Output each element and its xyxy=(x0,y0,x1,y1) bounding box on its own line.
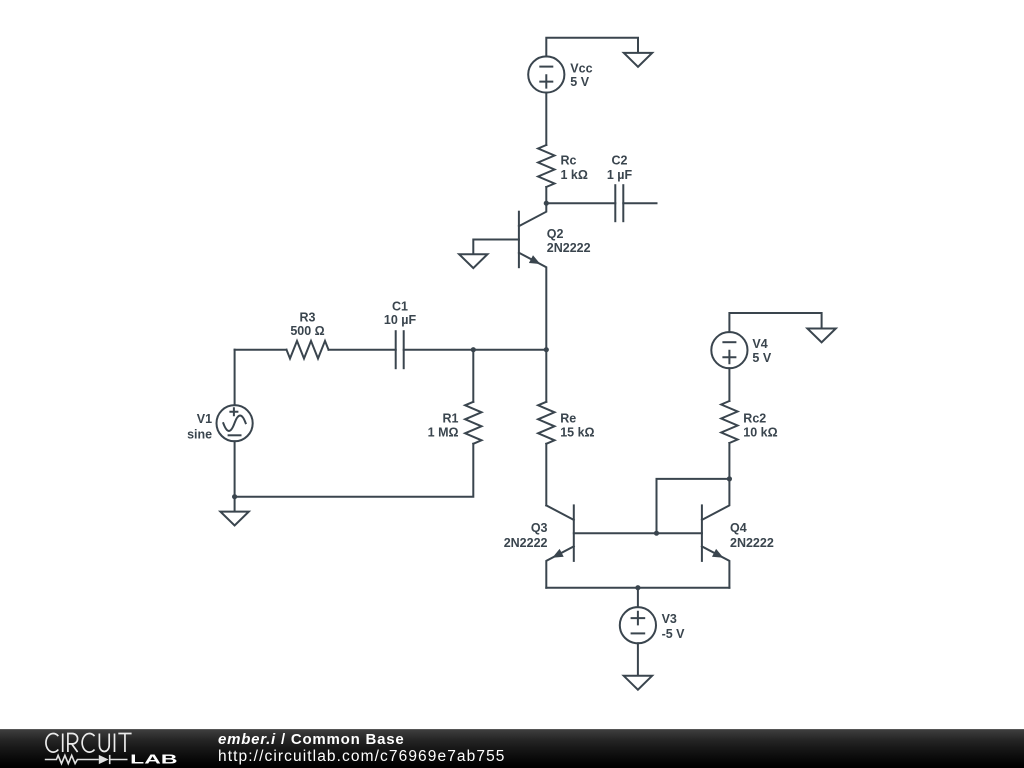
node V1 minus xyxy=(232,494,237,499)
svg-text:500 Ω: 500 Ω xyxy=(290,324,324,338)
voltage source V4 xyxy=(711,332,747,368)
footer url text xyxy=(218,748,506,766)
svg-text:R1: R1 xyxy=(443,412,459,426)
svg-text:5 V: 5 V xyxy=(752,351,771,365)
svg-text:5 V: 5 V xyxy=(570,75,589,89)
logo wordmark CIRCUIT (hand-drawn thin geometric letters) xyxy=(46,734,132,753)
transistor Q4 xyxy=(702,479,730,588)
resistor Rc xyxy=(538,145,554,187)
ground xyxy=(220,512,248,526)
svg-text:V1: V1 xyxy=(197,412,212,426)
svg-text:C1: C1 xyxy=(392,300,408,314)
resistor Rc2 xyxy=(721,401,737,443)
wire xyxy=(546,587,729,589)
voltage source V1 sine xyxy=(217,405,253,441)
wire xyxy=(404,349,547,351)
resistor Re xyxy=(538,402,554,444)
wire xyxy=(472,350,474,402)
wire xyxy=(545,93,547,145)
wire xyxy=(545,187,547,203)
svg-text:10 µF: 10 µF xyxy=(384,313,417,327)
svg-text:Q3: Q3 xyxy=(531,521,548,535)
node Q3Q4 base xyxy=(654,531,659,536)
wire xyxy=(546,38,638,57)
svg-text:2N2222: 2N2222 xyxy=(504,536,548,550)
footer title text xyxy=(218,731,404,748)
transistor Q2 xyxy=(519,203,546,350)
wire xyxy=(329,349,396,351)
svg-text:V4: V4 xyxy=(752,337,767,351)
wire xyxy=(623,202,656,204)
svg-text:C2: C2 xyxy=(612,154,628,168)
ground xyxy=(624,676,652,690)
voltage source Vcc xyxy=(528,56,564,92)
svg-text:10 kΩ: 10 kΩ xyxy=(743,426,777,440)
wire xyxy=(234,441,236,496)
svg-text:2N2222: 2N2222 xyxy=(730,536,774,550)
node Re top xyxy=(544,347,549,352)
svg-text:1 µF: 1 µF xyxy=(607,168,633,182)
node R1 top xyxy=(471,347,476,352)
svg-text:1 kΩ: 1 kΩ xyxy=(561,168,588,182)
capacitor C2 xyxy=(615,185,623,221)
svg-text:15 kΩ: 15 kΩ xyxy=(560,426,594,440)
svg-text:2N2222: 2N2222 xyxy=(547,241,591,255)
wire xyxy=(235,444,474,497)
wire xyxy=(235,349,287,351)
svg-text:Re: Re xyxy=(560,412,576,426)
ground xyxy=(807,329,835,343)
CircuitLab logo xyxy=(0,720,200,768)
wire xyxy=(728,443,730,479)
wire xyxy=(637,588,639,607)
svg-text:V3: V3 xyxy=(662,612,677,626)
ground xyxy=(459,254,487,268)
svg-text:Q4: Q4 xyxy=(730,521,747,535)
wire xyxy=(545,444,547,506)
svg-text:R3: R3 xyxy=(300,310,316,324)
svg-text:Rc: Rc xyxy=(561,154,577,168)
svg-text:sine: sine xyxy=(187,427,212,441)
svg-text:LAB: LAB xyxy=(130,753,177,767)
footer bar xyxy=(0,729,1024,768)
resistor R1 xyxy=(465,402,481,444)
transistor Q3 xyxy=(546,505,574,587)
wire xyxy=(234,497,236,512)
resistor R3 xyxy=(287,341,329,359)
node V3 top xyxy=(635,585,640,590)
node collector xyxy=(544,201,549,206)
logo resistor-diode symbol xyxy=(45,755,128,764)
svg-text:-5 V: -5 V xyxy=(662,627,686,641)
wire xyxy=(473,240,519,254)
wire xyxy=(574,532,702,534)
wire xyxy=(728,368,730,401)
ground xyxy=(624,53,652,67)
svg-text:Rc2: Rc2 xyxy=(743,412,766,426)
svg-text:Vcc: Vcc xyxy=(570,62,592,76)
svg-text:Q2: Q2 xyxy=(547,227,564,241)
wire xyxy=(545,350,547,402)
wire xyxy=(657,479,730,533)
wire xyxy=(637,643,639,675)
node Q4 collector xyxy=(727,476,732,481)
capacitor C1 xyxy=(396,331,404,368)
voltage source V3 xyxy=(620,607,656,643)
wire xyxy=(546,202,615,204)
wire xyxy=(729,313,821,332)
wire xyxy=(234,350,236,405)
svg-text:1 MΩ: 1 MΩ xyxy=(428,426,459,440)
